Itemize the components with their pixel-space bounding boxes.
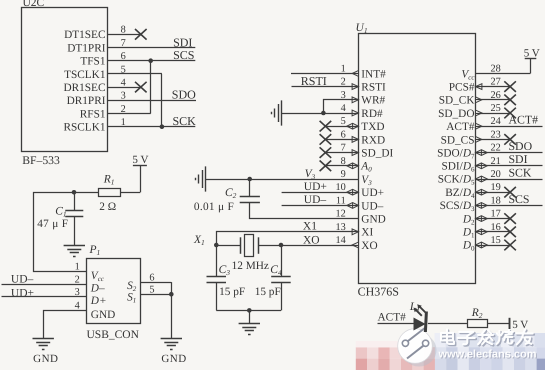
watermark logo circle — [398, 328, 437, 367]
svg-text:SDI/D6: SDI/D6 — [441, 161, 475, 174]
no-connect X on U1 pin 27 — [504, 81, 516, 92]
wire U1 pin2 RSTI — [292, 86, 359, 88]
wire node left and down to P1 pin1 — [34, 193, 87, 272]
wire U1 pin6 RXD stub — [325, 139, 358, 141]
svg-text:BZ/D4: BZ/D4 — [445, 187, 475, 200]
svg-text:DR1PRI: DR1PRI — [67, 95, 106, 107]
junction node crystal left — [214, 243, 219, 248]
svg-text:6: 6 — [149, 273, 154, 284]
wire U1 pin10 UD+ — [282, 192, 358, 194]
svg-text:GND: GND — [161, 353, 186, 365]
svg-text:XO: XO — [361, 240, 377, 252]
svg-text:TXD: TXD — [361, 121, 384, 133]
svg-text:INT#: INT# — [361, 68, 386, 80]
wire U1 pin23 stub — [476, 139, 511, 141]
wire ACT# to LED — [378, 323, 414, 325]
wire P1 pin5 S1 — [140, 294, 171, 296]
svg-text:SCS: SCS — [509, 192, 530, 206]
svg-text:ACT#: ACT# — [378, 312, 407, 324]
wire SCS to RFS1 vertical — [150, 61, 152, 114]
svg-text:25: 25 — [491, 103, 501, 114]
svg-text:12 MHz: 12 MHz — [232, 260, 269, 272]
svg-text:4: 4 — [341, 103, 346, 114]
svg-text:SDO: SDO — [509, 139, 533, 153]
svg-text:19: 19 — [491, 182, 501, 193]
svg-text:SCK: SCK — [509, 165, 532, 179]
connector P1 USB_CON box — [87, 259, 141, 324]
wire U1 pin19 stub — [476, 192, 511, 194]
wire U1 pin27 stub — [476, 86, 511, 88]
svg-text:SDO/D7: SDO/D7 — [437, 147, 475, 160]
svg-text:DR1SEC: DR1SEC — [63, 82, 105, 94]
svg-text:X1: X1 — [303, 221, 317, 233]
svg-text:SD_DI: SD_DI — [361, 148, 393, 160]
wire U1 pin14 XO — [281, 245, 358, 247]
svg-text:1: 1 — [341, 63, 346, 74]
wire U1 pin26 stub — [476, 99, 511, 101]
pin number 10 is above; wire U1 pin11 UD- — [282, 205, 358, 207]
watermark mosaic background — [356, 333, 545, 370]
watermark text 电子发烧友 (stylized) — [441, 329, 534, 345]
svg-text:2: 2 — [75, 275, 80, 286]
junction node crystal right — [279, 243, 284, 248]
svg-text:SDI: SDI — [509, 152, 528, 166]
wire U1 pin20 SCK — [476, 179, 543, 181]
svg-text:15: 15 — [491, 235, 501, 246]
svg-text:6: 6 — [341, 129, 346, 140]
svg-text:WR#: WR# — [361, 95, 385, 107]
no-connect X on U1 pin 19 — [504, 187, 516, 198]
wire U1 pin3 WR# — [324, 100, 359, 114]
capacitor C1 47uF — [74, 192, 76, 210]
svg-text:47 μ F: 47 μ F — [37, 218, 68, 230]
svg-text:RXD: RXD — [361, 134, 385, 146]
svg-text:SCS: SCS — [173, 48, 194, 62]
svg-text:RSTI: RSTI — [301, 74, 327, 88]
svg-text:5: 5 — [341, 116, 346, 127]
svg-text:UD–: UD– — [361, 200, 383, 212]
svg-text:USB_CON: USB_CON — [87, 329, 140, 341]
wire U1 pin4 RD# to ground — [282, 113, 358, 115]
wire LED to R2 — [428, 323, 467, 325]
wire S-node vertical to ground — [171, 282, 173, 338]
wire U2C pin8 stub — [107, 34, 141, 36]
svg-text:SCK: SCK — [173, 114, 197, 128]
svg-text:11: 11 — [336, 195, 346, 206]
svg-text:UD–: UD– — [11, 273, 34, 285]
svg-text:GND: GND — [91, 309, 115, 321]
svg-text:SD_DO: SD_DO — [438, 108, 474, 120]
sideways ground (RD#) — [272, 100, 282, 125]
svg-text:1: 1 — [75, 262, 80, 273]
wire U1 pin1 INT# — [291, 73, 358, 75]
svg-text:10: 10 — [336, 182, 346, 193]
no-connect X on U1 pin 26 — [504, 95, 516, 106]
capacitor C4 15pF — [281, 245, 283, 276]
junction node WR/RD — [321, 111, 326, 116]
crystal symbol — [240, 237, 242, 254]
svg-text:BF–533: BF–533 — [22, 154, 60, 167]
wire R1 right to 5V — [120, 192, 140, 194]
ground for P1 pin4 — [33, 339, 54, 350]
junction node SCK/TSCLK1 — [160, 124, 165, 129]
wire U1 pin25 stub — [476, 113, 511, 115]
wire P1 pin4 to ground — [44, 311, 87, 339]
svg-text:15 pF: 15 pF — [219, 286, 245, 298]
IC U1 CH376S box — [359, 34, 476, 284]
capacitor C3 15pF — [216, 245, 218, 276]
wire U1 pin9 V3 — [206, 179, 358, 181]
svg-text:DT1SEC: DT1SEC — [64, 29, 105, 41]
ground for crystal — [239, 324, 260, 335]
svg-text:U2C: U2C — [23, 0, 45, 9]
wire U2C pin4 stub — [107, 87, 141, 89]
wire U1 pin17 stub — [476, 218, 511, 220]
wire 5V down to R1 — [140, 166, 142, 192]
junction node SCS/RFS1 — [148, 58, 153, 63]
ground for C1 — [64, 246, 85, 257]
wire U1 pin5 TXD stub — [325, 126, 358, 128]
junction node S1 — [169, 292, 174, 297]
wire U1 pin8 A0 stub — [325, 165, 358, 167]
svg-text:5 V: 5 V — [132, 154, 148, 166]
svg-text:SDO: SDO — [172, 88, 196, 102]
svg-text:ACT#: ACT# — [509, 113, 539, 127]
sideways ground (V3) — [196, 166, 206, 191]
no-connect X on U1 pin 25 — [504, 108, 516, 119]
junction node R1/C1/Vcc — [72, 190, 77, 195]
svg-text:XO: XO — [303, 235, 320, 247]
svg-text:CH376S: CH376S — [358, 285, 399, 299]
svg-text:SCS/D3: SCS/D3 — [440, 200, 475, 213]
no-connect X on U1 pin 23 — [504, 134, 516, 145]
svg-text:SCK/D5: SCK/D5 — [438, 174, 475, 187]
svg-text:UD+: UD+ — [11, 287, 34, 299]
svg-text:PCS#: PCS# — [449, 82, 475, 94]
no-connect X on U1 pin 17 — [504, 213, 516, 224]
IC U2C BF-533 box — [22, 8, 108, 152]
wire SDO (U2C pin3) — [107, 100, 196, 102]
wire SDI (U2C pin7) — [107, 47, 195, 49]
svg-text:15 pF: 15 pF — [255, 286, 281, 298]
svg-text:www.elecfans.com: www.elecfans.com — [438, 348, 537, 360]
no-connect X on U2C pin 4 — [135, 82, 147, 93]
no-connect X on U2C pin 8 — [135, 29, 147, 40]
wire U1 pin13 XI — [217, 232, 359, 246]
resistor R2 — [468, 320, 488, 328]
no-connect X on U1 pin 6 — [320, 134, 332, 145]
wire U1 pin21 SDI — [476, 165, 543, 167]
wire U1 pin24 ACT# — [476, 126, 543, 128]
svg-text:ACT#: ACT# — [446, 121, 475, 133]
svg-text:DT1PRI: DT1PRI — [67, 42, 106, 54]
svg-text:9: 9 — [341, 169, 346, 180]
wire U1 pin28 Vcc — [476, 73, 531, 75]
svg-text:23: 23 — [491, 129, 501, 140]
wire SCK (U2C pin1) — [107, 126, 195, 128]
wire U1 pin18 SCS — [476, 205, 543, 207]
svg-text:UD+: UD+ — [304, 181, 327, 193]
svg-text:RD#: RD# — [361, 108, 383, 120]
no-connect X on U1 pin 5 — [320, 121, 332, 132]
junction node crystal gnd — [247, 308, 252, 313]
svg-text:18: 18 — [491, 195, 501, 206]
svg-text:RSCLK1: RSCLK1 — [63, 122, 105, 134]
svg-text:GND: GND — [361, 214, 385, 226]
power 5V (R2) — [509, 318, 511, 329]
no-connect X on U1 pin 7 — [320, 147, 332, 158]
wire TSCLK1 vertical to SCK — [161, 74, 163, 127]
ground for S-node — [161, 339, 182, 350]
svg-text:SD_CK: SD_CK — [439, 95, 476, 107]
wire UD- to P1 pin2 — [2, 284, 87, 286]
svg-text:28: 28 — [491, 63, 501, 74]
svg-text:UD–: UD– — [304, 194, 327, 206]
wire R1 left to node — [74, 192, 98, 194]
svg-text:20: 20 — [491, 169, 501, 180]
no-connect X on U1 pin 16 — [504, 227, 516, 238]
wire R2 to 5V — [488, 323, 510, 325]
svg-text:4: 4 — [121, 78, 126, 89]
wire U1 pin22 SDO — [476, 152, 543, 154]
svg-text:24: 24 — [491, 116, 501, 127]
svg-text:0.01 μ F: 0.01 μ F — [194, 201, 234, 213]
svg-text:RFS1: RFS1 — [80, 108, 106, 120]
resistor R1 2 ohm — [99, 189, 121, 197]
wire SCS (U2C pin6) — [107, 60, 195, 62]
svg-text:SD_CS: SD_CS — [441, 134, 475, 146]
svg-text:GND: GND — [33, 353, 58, 365]
svg-text:5 V: 5 V — [524, 48, 540, 60]
svg-text:5 V: 5 V — [512, 319, 528, 331]
wire crystal bottom rail — [216, 310, 281, 312]
svg-text:14: 14 — [336, 235, 346, 246]
wire U1 pin7 SD_DI stub — [325, 152, 358, 154]
svg-text:TFS1: TFS1 — [80, 56, 105, 68]
capacitor C2 0.01uF — [249, 179, 251, 196]
wire U2C pin5 TSCLK1 horizontal — [107, 73, 162, 75]
svg-text:XI: XI — [361, 227, 373, 239]
wire UD+ to P1 pin3 — [2, 296, 87, 298]
wire U2C pin2 RFS1 — [107, 113, 151, 115]
no-connect X on U1 pin 8 — [320, 161, 332, 172]
no-connect X on U1 pin 15 — [504, 240, 516, 251]
wire down to crystal ground — [249, 310, 251, 323]
svg-text:TSCLK1: TSCLK1 — [64, 69, 105, 81]
svg-text:UD+: UD+ — [361, 187, 384, 199]
svg-text:RSTI: RSTI — [361, 82, 386, 94]
wire crystal right plate to node — [258, 245, 281, 247]
wire U1 pin16 stub — [476, 231, 511, 233]
wire to crystal left plate — [216, 245, 241, 247]
svg-text:D+: D+ — [90, 295, 107, 307]
wire P1 pin6 S2 — [140, 282, 171, 284]
junction node V3/C2 — [247, 177, 252, 182]
wire U1 pin15 stub — [476, 245, 511, 247]
svg-text:D–: D– — [90, 283, 105, 295]
svg-text:2 Ω: 2 Ω — [99, 201, 116, 213]
